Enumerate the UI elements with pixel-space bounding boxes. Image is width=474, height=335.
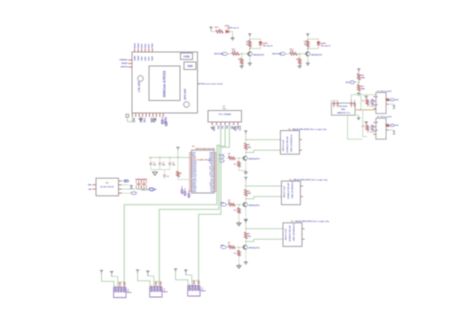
svg-text:INPUT 3.3V: INPUT 3.3V bbox=[283, 139, 285, 151]
transistor S8050(J3Y) bbox=[248, 52, 252, 56]
connector pin sockets bbox=[115, 286, 117, 289]
wire MCU to relay1 base bbox=[217, 158, 222, 160]
wire base bbox=[239, 157, 242, 159]
power flag connector 4 bbox=[101, 272, 103, 274]
wire U4 out2 to ground bbox=[121, 184, 129, 186]
svg-text:PWR: PWR bbox=[152, 56, 154, 61]
power flag for LED loop bbox=[307, 35, 309, 37]
wire emitter to ground bbox=[307, 56, 309, 61]
connector bottom line bbox=[151, 296, 161, 298]
ground pulldown relay bbox=[238, 256, 240, 264]
svg-text:817 in-4 OUT: 817 in-4 OUT bbox=[381, 116, 393, 119]
net label opto out bbox=[390, 99, 394, 101]
connector U3 TTL/RS485 box bbox=[208, 111, 242, 123]
ground arrow at opto output bbox=[393, 106, 396, 108]
svg-text:ONE CH MODULE: ONE CH MODULE bbox=[294, 223, 296, 241]
net flag 3V3 at U4 out1 bbox=[121, 180, 124, 182]
diode at opto input (purple) bbox=[371, 125, 373, 130]
wire opto input top bbox=[366, 124, 368, 125]
capacitor C10 at regulator input bbox=[333, 101, 335, 104]
svg-text:GND: GND bbox=[141, 56, 143, 61]
wire green drop to connector bbox=[158, 280, 160, 287]
relay box left pin dots bbox=[282, 228, 283, 229]
connector pin sockets bbox=[189, 285, 191, 288]
ground flag connector 4 bbox=[110, 271, 113, 273]
connector bottom line bbox=[189, 295, 199, 297]
ground at U3 pin6 bbox=[232, 126, 235, 128]
electrolytic capacitor CE1 bbox=[136, 179, 141, 184]
wire caps top rail bbox=[192, 280, 199, 282]
svg-text:con4: con4 bbox=[163, 290, 167, 293]
wire caps common bottom bbox=[151, 169, 170, 171]
ground emitter relay bbox=[245, 171, 247, 173]
transistor relay K1 bbox=[243, 156, 247, 160]
ground at module bottom pin 2 bbox=[138, 118, 143, 121]
LED D1 power indicator bbox=[226, 30, 229, 33]
module bottom pins bbox=[131, 113, 133, 117]
wire green bus C from U3 pin5 bbox=[199, 125, 230, 281]
wire collector up bbox=[307, 39, 309, 51]
wire opto output 2 to ground bbox=[388, 130, 394, 131]
svg-text:GND: GND bbox=[145, 43, 147, 48]
wire input to base resistor bbox=[226, 204, 228, 206]
capacitor at connector 5 2 bbox=[159, 282, 161, 284]
wire input to base resistor bbox=[226, 246, 228, 248]
power flag VCC for power LED bbox=[210, 28, 212, 30]
wire to relay box pin2 bbox=[245, 239, 247, 242]
relay module box K2 bbox=[281, 181, 300, 205]
resistor collector loop relay bbox=[244, 190, 247, 197]
connector J6 box bbox=[188, 286, 200, 296]
svg-text:RELAY-SRD-05VDC-SL-C songle r: RELAY-SRD-05VDC-SL-C songle relay bbox=[293, 128, 328, 131]
svg-text:INPUT 3.3V: INPUT 3.3V bbox=[284, 186, 286, 198]
svg-text:VDD: VDD bbox=[149, 56, 151, 61]
relay module box K1 bbox=[280, 131, 299, 155]
svg-text:ONE CH MODULE: ONE CH MODULE bbox=[291, 134, 293, 152]
power flag 3V3 left of MCU bbox=[177, 148, 179, 150]
svg-text:SIM: SIM bbox=[187, 64, 193, 68]
svg-text:PWR state D: PWR state D bbox=[228, 27, 240, 30]
svg-text:SONGLE RELAY: SONGLE RELAY bbox=[287, 182, 290, 199]
wire collector down to transistor bbox=[245, 241, 247, 244]
ground for emitter bbox=[307, 62, 309, 64]
module right pin with net name bbox=[198, 83, 201, 85]
capacitor at connector 6 1 bbox=[193, 281, 195, 283]
svg-text:104: 104 bbox=[172, 164, 175, 167]
GPS antenna pad circle bbox=[184, 102, 190, 108]
capacitor C4 lower bbox=[164, 170, 166, 175]
svg-text:PWRKEY: PWRKEY bbox=[119, 60, 128, 62]
DC-DC module U4 box bbox=[96, 178, 119, 196]
wire power to resistor bbox=[211, 30, 215, 31]
capacitor at connector 6 2 bbox=[197, 281, 199, 283]
net label 5V oval bbox=[149, 188, 153, 191]
wire opto input top bbox=[366, 98, 368, 99]
opto right pins bbox=[386, 124, 388, 126]
wire power down bbox=[102, 274, 114, 288]
svg-text:4G state D: 4G state D bbox=[263, 45, 273, 48]
resistor base pulldown relay bbox=[238, 158, 239, 159]
wire to relay box pin1 bbox=[246, 139, 281, 141]
svg-text:S8050(J3Y): S8050(J3Y) bbox=[248, 248, 259, 250]
resistor base relay bbox=[229, 157, 236, 160]
ground for power LED bbox=[232, 36, 234, 38]
transistor S8050(J3Y) bbox=[306, 52, 310, 56]
svg-text:R?: R? bbox=[362, 126, 364, 128]
wire loop top bbox=[308, 38, 319, 40]
wire collector down to transistor bbox=[245, 199, 247, 202]
svg-text:SONGLE RELAY: SONGLE RELAY bbox=[286, 136, 289, 153]
wire resistor to base bbox=[297, 53, 305, 55]
resistor at opto input bbox=[366, 99, 369, 105]
svg-text:IO6: IO6 bbox=[211, 191, 214, 193]
svg-text:con4: con4 bbox=[127, 291, 131, 294]
electrolytic capacitor CE3 bbox=[136, 184, 141, 189]
opto left pins bbox=[374, 121, 376, 123]
wire loop top bbox=[250, 38, 261, 40]
wire green bus B from U3 pin4 bbox=[159, 125, 225, 281]
svg-text:TTL / RS485: TTL / RS485 bbox=[219, 113, 232, 116]
svg-text:R1: R1 bbox=[180, 173, 182, 175]
wire caps top rail bbox=[154, 281, 161, 283]
test point TP2 at module bottom bbox=[165, 117, 167, 121]
optocoupler U7 body bbox=[376, 118, 386, 139]
signal ground at U4 out2 bbox=[130, 185, 134, 187]
connector J4 box bbox=[114, 288, 126, 298]
svg-text:GND: GND bbox=[145, 56, 147, 61]
wire antenna horizontal bbox=[127, 121, 134, 123]
svg-text:S8050(J3Y): S8050(J3Y) bbox=[248, 159, 259, 161]
wire power to collector loop bbox=[245, 223, 247, 229]
wire power down bbox=[138, 273, 150, 287]
svg-text:BOOT: BOOT bbox=[219, 155, 225, 157]
transistor relay K3 bbox=[243, 245, 247, 249]
wire collector up bbox=[249, 39, 251, 51]
svg-text:104: 104 bbox=[153, 164, 156, 167]
svg-text:100K: 100K bbox=[361, 89, 366, 91]
ground for pulldown bbox=[241, 64, 243, 66]
capacitor C12 at regulator output bbox=[350, 100, 352, 104]
power flag for LED loop bbox=[249, 35, 251, 37]
opto left pins bbox=[374, 96, 376, 98]
wire cap cluster verticals bbox=[138, 179, 140, 189]
resistor base relay bbox=[229, 203, 236, 206]
ground flag at opto input bbox=[365, 95, 368, 97]
power flag relay K1 bbox=[245, 132, 247, 134]
net label relay input bbox=[221, 246, 227, 249]
svg-text:VBAT: VBAT bbox=[137, 55, 140, 61]
connector right stub bbox=[162, 290, 165, 292]
wire emitter down bbox=[245, 250, 247, 260]
svg-text:IN?: IN? bbox=[221, 245, 224, 247]
power arrow at U3 pin7 bbox=[237, 126, 239, 129]
svg-text:R?: R? bbox=[234, 164, 236, 166]
wire opto input bottom bbox=[367, 105, 376, 106]
svg-text:USB: USB bbox=[183, 55, 190, 59]
power flag for ADC divider bbox=[358, 70, 360, 72]
svg-text:RELAY-SRD-05VDC-SL-C songle r: RELAY-SRD-05VDC-SL-C songle relay bbox=[294, 178, 329, 181]
resistor R21 divider bottom bbox=[357, 85, 360, 91]
resistor R12 base bbox=[290, 52, 298, 55]
diode at opto input (purple) bbox=[371, 99, 373, 104]
opto right pins bbox=[386, 99, 388, 101]
svg-text:S8050(J3Y): S8050(J3Y) bbox=[248, 205, 259, 207]
svg-text:IN?: IN? bbox=[221, 202, 224, 204]
svg-text:DTR: DTR bbox=[149, 118, 151, 123]
svg-text:GND: GND bbox=[341, 109, 346, 111]
U4 right pins bbox=[119, 180, 122, 182]
svg-text:RELAY-SRD-05VDC-SL-C songle r: RELAY-SRD-05VDC-SL-C songle relay bbox=[295, 220, 330, 223]
resistor base pulldown bbox=[298, 58, 301, 64]
resistor base pulldown bbox=[240, 58, 243, 64]
wire opto output 1 bbox=[389, 124, 390, 126]
capacitor at connector 4 2 bbox=[123, 282, 125, 284]
wire to relay box pin1 bbox=[246, 228, 283, 230]
resistor collector loop bbox=[248, 40, 251, 47]
wire base bbox=[239, 204, 242, 206]
resistor at opto input bbox=[366, 125, 369, 131]
wire power to collector loop bbox=[245, 134, 247, 140]
connector right stub bbox=[126, 291, 129, 293]
wire caps top rail bbox=[118, 281, 125, 283]
wire label to base resistor bbox=[228, 53, 232, 55]
svg-text:GPS ANT: GPS ANT bbox=[183, 88, 187, 100]
wire green drop to connector bbox=[198, 279, 200, 286]
test point ovals below MCU bbox=[181, 186, 183, 189]
relay module box K3 bbox=[283, 223, 302, 247]
svg-text:PWR: PWR bbox=[152, 43, 154, 48]
ground for pulldown bbox=[299, 64, 301, 66]
svg-text:ONE CH MODULE: ONE CH MODULE bbox=[292, 180, 294, 198]
svg-text:VBAT: VBAT bbox=[133, 42, 136, 48]
wire regulator output rail to right bbox=[351, 95, 376, 100]
wire to relay box pin2 bbox=[245, 196, 247, 199]
capacitor C2 bbox=[159, 158, 161, 163]
svg-text:VIN-: VIN- bbox=[88, 189, 92, 191]
svg-text:P24 main status check: P24 main status check bbox=[201, 83, 223, 86]
connector bottom line bbox=[115, 297, 125, 299]
svg-text:100K: 100K bbox=[361, 77, 366, 79]
svg-text:RESET: RESET bbox=[121, 63, 128, 65]
svg-text:LTE ANT: LTE ANT bbox=[137, 81, 141, 92]
wire antenna feed bbox=[126, 117, 128, 122]
capacitor C3 bbox=[169, 158, 171, 163]
wire label to base resistor bbox=[286, 53, 290, 55]
ground emitter relay bbox=[245, 261, 247, 263]
electrolytic capacitor CE2 bbox=[141, 179, 146, 184]
MCU U2 body bbox=[192, 150, 215, 193]
wire regulator input top rail bbox=[331, 100, 337, 102]
module U1 inner outline bbox=[149, 66, 180, 101]
wire to relay box pin2 bbox=[245, 150, 247, 153]
resistor base pulldown relay bbox=[238, 204, 239, 205]
ground for divider bbox=[358, 90, 360, 93]
svg-text:ADC: ADC bbox=[345, 81, 350, 84]
power flag relay K2 bbox=[245, 178, 247, 180]
svg-text:VBAT: VBAT bbox=[137, 42, 140, 48]
ground flag connector 5 bbox=[146, 270, 149, 272]
net label ovals right of MCU bbox=[219, 156, 224, 159]
connector right stub bbox=[200, 289, 203, 291]
net label at U4 out4 bbox=[121, 192, 131, 194]
svg-text:RX: RX bbox=[216, 126, 218, 130]
relay box right pins bbox=[302, 228, 304, 230]
wire divider middle node bbox=[358, 80, 360, 85]
wire module ANT pin down bbox=[131, 117, 133, 122]
ground arrow at opto output bbox=[393, 131, 396, 133]
power flag connector 5 bbox=[137, 271, 139, 273]
resistor R11 base bbox=[232, 52, 240, 55]
wire emitter down bbox=[245, 161, 247, 171]
resistor collector loop relay bbox=[244, 143, 247, 150]
SIM sub-box bbox=[184, 62, 196, 70]
wire opto input bottom bbox=[367, 131, 376, 132]
wire LED to ground bbox=[229, 32, 233, 37]
ground for decoupling caps bbox=[154, 170, 156, 172]
resistor collector loop bbox=[306, 40, 309, 47]
MCU right pins and labels bbox=[214, 152, 216, 154]
capacitor C1 bbox=[150, 158, 152, 163]
wire power to collector loop bbox=[245, 180, 247, 186]
wire loop bottom bbox=[259, 46, 261, 49]
wire 3V3 horizontal rail bbox=[149, 157, 192, 159]
LTE antenna pad circle bbox=[138, 76, 144, 82]
svg-text:STATUS: STATUS bbox=[121, 66, 129, 69]
relay box left pin dots bbox=[280, 139, 281, 140]
wire power down bbox=[176, 272, 188, 286]
svg-text:DC-DC 12V-5V: DC-DC 12V-5V bbox=[100, 186, 114, 188]
wire collector down to transistor bbox=[245, 152, 247, 155]
net label opto out bbox=[390, 124, 394, 126]
svg-text:R?: R? bbox=[362, 101, 364, 103]
resistor opto output bbox=[386, 124, 389, 127]
svg-text:GND: GND bbox=[142, 43, 144, 48]
svg-text:R?: R? bbox=[234, 210, 236, 212]
relay box left pin dots bbox=[281, 186, 282, 187]
U4 left pins bbox=[93, 184, 96, 186]
wire 3V3 rail down bbox=[177, 150, 179, 157]
ground emitter relay bbox=[245, 218, 247, 220]
svg-text:SD0: SD0 bbox=[192, 191, 196, 193]
resistor collector loop relay bbox=[244, 232, 247, 239]
svg-text:VIN VOUT: VIN VOUT bbox=[339, 106, 349, 108]
module U1 SIMCom A7672S outer body bbox=[132, 52, 198, 113]
wire regulator to opto2 left vertical bbox=[362, 110, 367, 137]
svg-text:USB_5V: USB_5V bbox=[141, 189, 149, 191]
USB sub-box bbox=[181, 53, 193, 60]
transistor relay K2 bbox=[243, 202, 247, 206]
svg-text:U2: U2 bbox=[192, 146, 194, 148]
connector J5 box bbox=[150, 287, 162, 297]
capacitor at connector 4 1 bbox=[119, 282, 121, 284]
ground at U3 pin1 bbox=[211, 126, 214, 128]
relay box right pins bbox=[300, 185, 302, 187]
wire opto output 1 bbox=[389, 99, 390, 101]
resistor R20 divider top bbox=[357, 74, 360, 80]
svg-text:817 in-4 OUT: 817 in-4 OUT bbox=[381, 90, 393, 93]
resistor R10 power LED bbox=[216, 30, 224, 33]
wire opto output 2 to ground bbox=[388, 104, 394, 105]
wire loop bottom bbox=[317, 46, 319, 49]
resistor base relay bbox=[229, 246, 236, 249]
module top pins bbox=[134, 49, 136, 52]
wire cap cluster top rail bbox=[135, 178, 147, 180]
ground flag connector 6 bbox=[184, 269, 187, 271]
svg-text:104: 104 bbox=[162, 164, 165, 167]
wire green bus A from U3 pin3 bbox=[124, 125, 221, 281]
net label relay input bbox=[221, 203, 227, 206]
capacitor C11 at regulator input bbox=[337, 101, 339, 104]
svg-text:S8050(J3Y): S8050(J3Y) bbox=[311, 54, 322, 56]
power flag connector 6 bbox=[175, 270, 177, 272]
svg-text:TTL: TTL bbox=[223, 108, 226, 110]
wire power to R20 bbox=[358, 72, 360, 74]
wire pulldown to emitter ground bbox=[239, 167, 246, 171]
electrolytic capacitor CE4 bbox=[141, 184, 146, 189]
wire U4 out3 5V rail bbox=[121, 188, 148, 190]
ground flag at opto input bbox=[365, 121, 368, 123]
U3 bottom pins bbox=[211, 122, 213, 125]
LED LED2 bbox=[317, 39, 319, 42]
MCU left pins and labels bbox=[189, 152, 191, 154]
capacitor at connector 5 1 bbox=[155, 282, 157, 284]
capacitor C13 at regulator output bbox=[354, 100, 356, 104]
svg-text:SONGLE RELAY: SONGLE RELAY bbox=[289, 225, 292, 242]
svg-text:VDD: VDD bbox=[149, 44, 151, 49]
ground pulldown relay bbox=[238, 213, 240, 221]
svg-text:AMS1117-3.3: AMS1117-3.3 bbox=[337, 111, 350, 114]
relay box right pins bbox=[299, 139, 301, 141]
resistor R1 pullup to EN bbox=[177, 171, 180, 177]
wire branch down to orange net bbox=[360, 95, 362, 110]
LTE antenna connector J1 bbox=[126, 114, 129, 117]
wire emitter to ground bbox=[249, 56, 251, 61]
wire resistor to base bbox=[239, 53, 247, 55]
wire input to base resistor bbox=[226, 157, 228, 159]
regulator U5 wire loop body bbox=[331, 103, 355, 115]
svg-text:con4: con4 bbox=[201, 289, 205, 292]
wire base bbox=[239, 246, 242, 248]
svg-text:VBAT: VBAT bbox=[133, 55, 136, 61]
resistor base pulldown relay bbox=[238, 247, 239, 248]
ground at module bottom pin 5 bbox=[153, 118, 155, 120]
wire emitter down bbox=[245, 207, 247, 217]
wire green drop to connector bbox=[123, 281, 125, 288]
wire down from regulator loop bbox=[348, 115, 363, 139]
net label ADC_BAT bbox=[350, 81, 354, 84]
optocoupler U6 body bbox=[376, 93, 386, 114]
svg-text:C4: C4 bbox=[167, 175, 169, 178]
wire regulator out heat (orange net) bbox=[355, 109, 376, 111]
svg-text:INPUT 3.3V: INPUT 3.3V bbox=[286, 228, 288, 240]
connector pin sockets bbox=[151, 286, 153, 289]
wire to relay box pin1 bbox=[246, 185, 282, 187]
svg-text:ESP32-WROOM-32E: ESP32-WROOM-32E bbox=[196, 148, 216, 150]
ground for emitter bbox=[249, 62, 251, 64]
module left pins bbox=[129, 59, 133, 61]
resistor opto output bbox=[386, 98, 389, 101]
svg-text:R?: R? bbox=[238, 59, 240, 61]
svg-text:R?: R? bbox=[234, 253, 236, 255]
svg-text:S8050(J3Y): S8050(J3Y) bbox=[253, 54, 264, 56]
ground flag for regulator bbox=[355, 115, 359, 117]
svg-text:4G state D: 4G state D bbox=[321, 45, 331, 48]
power flag relay K3 bbox=[245, 221, 247, 223]
svg-text:SIMCom A7672S: SIMCom A7672S bbox=[163, 70, 167, 97]
LED LED1 bbox=[259, 39, 261, 42]
test point TP1 at module bottom bbox=[161, 117, 163, 120]
svg-text:R?: R? bbox=[296, 59, 298, 61]
